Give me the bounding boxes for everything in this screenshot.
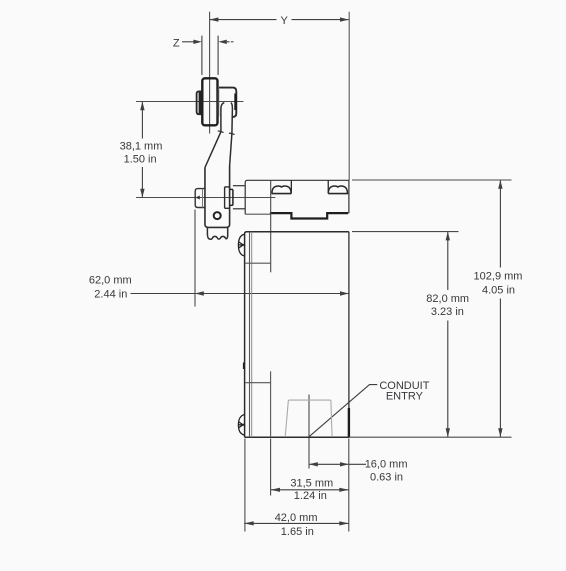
body screw upper bbox=[238, 234, 245, 256]
dimension Y bbox=[210, 12, 350, 180]
roller-hub dark gap bbox=[199, 92, 203, 114]
washer at lever right bbox=[225, 187, 230, 208]
svg-text:1.50 in: 1.50 in bbox=[124, 153, 157, 165]
centerline shaft horizontal bbox=[136, 197, 275, 199]
body outline bbox=[245, 232, 349, 438]
svg-text:2.44 in: 2.44 in bbox=[94, 288, 127, 300]
svg-text:Y: Y bbox=[281, 15, 289, 27]
svg-text:ENTRY: ENTRY bbox=[386, 390, 424, 402]
svg-text:Z: Z bbox=[173, 37, 180, 49]
lower mounting vertical bbox=[270, 371, 272, 437]
shaft neck to head bbox=[233, 186, 245, 209]
body right edge bbox=[348, 232, 350, 438]
lever lower body bbox=[205, 166, 230, 227]
body right edge thick lower bbox=[348, 408, 350, 437]
bend tick right bbox=[229, 133, 235, 134]
dimension 38.1 mm bbox=[140, 102, 144, 198]
svg-text:0.63 in: 0.63 in bbox=[370, 472, 403, 484]
left edge dark tick bbox=[243, 363, 245, 370]
head screw right bbox=[328, 180, 348, 193]
cover plate line 1 bbox=[249, 232, 251, 438]
lever head clamp bolt (dark bar) bbox=[234, 94, 236, 111]
svg-text:1.24 in: 1.24 in bbox=[294, 490, 327, 502]
head thick stepped bottom bbox=[270, 213, 348, 218]
lever serrated tip bbox=[207, 227, 227, 239]
dimension 102.9 mm bbox=[352, 180, 512, 437]
upper mounting tick bbox=[245, 262, 270, 264]
svg-text:102,9 mm: 102,9 mm bbox=[474, 270, 523, 282]
conduit entry label + leader bbox=[309, 385, 377, 437]
shaft collar bbox=[230, 189, 233, 205]
conduit trapezoid bbox=[285, 400, 332, 437]
svg-text:42,0 mm: 42,0 mm bbox=[275, 512, 318, 524]
body bottom edge bbox=[245, 436, 349, 438]
roller hub bbox=[197, 91, 203, 114]
shaft end cap left bbox=[195, 189, 205, 208]
dimension Z bbox=[182, 36, 233, 75]
bend tick left bbox=[218, 131, 224, 133]
svg-text:31,5 mm: 31,5 mm bbox=[290, 478, 333, 490]
lower mounting tick bbox=[245, 382, 270, 384]
operating head outline bbox=[245, 180, 349, 214]
centerline roller horizontal bbox=[136, 101, 244, 103]
dimension 42.0 mm bbox=[244, 439, 349, 532]
head bottom left light line bbox=[245, 213, 271, 215]
dimension 31.5 mm bbox=[271, 439, 349, 496]
head inner vertical line bbox=[270, 180, 272, 272]
lever arm neck right bbox=[230, 103, 233, 166]
cover plate line 2 bbox=[251, 232, 253, 438]
head screw left bbox=[272, 180, 292, 193]
lever head bbox=[219, 88, 236, 117]
roller-head dark gap bbox=[217, 90, 219, 117]
dimension 62.0 mm bbox=[131, 210, 349, 307]
dimension 82.0 mm bbox=[352, 232, 459, 437]
svg-text:82,0 mm: 82,0 mm bbox=[426, 293, 469, 305]
shaft cap inner line bbox=[202, 189, 204, 208]
svg-text:1.65 in: 1.65 in bbox=[281, 526, 314, 538]
dimension 16.0 mm bbox=[309, 395, 366, 469]
svg-text:16,0 mm: 16,0 mm bbox=[365, 459, 408, 471]
svg-text:62,0 mm: 62,0 mm bbox=[89, 275, 132, 287]
svg-text:3.23 in: 3.23 in bbox=[431, 306, 464, 318]
centerline roller vertical bbox=[209, 12, 211, 134]
roller bbox=[202, 78, 217, 125]
shaft cap arrow mark bbox=[196, 196, 200, 200]
lever clamp screw hole bbox=[214, 212, 221, 219]
lever arm neck left bbox=[205, 103, 224, 168]
bottom edge extension bbox=[349, 436, 512, 438]
body screw lower bbox=[238, 415, 245, 436]
svg-text:4.05 in: 4.05 in bbox=[482, 284, 515, 296]
svg-text:38,1 mm: 38,1 mm bbox=[120, 140, 163, 152]
